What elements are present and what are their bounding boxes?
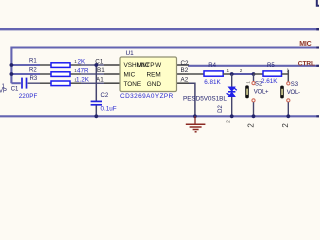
wire: vertical from R1 row to capacitor C2 and GND rail <box>95 65 97 101</box>
svg-text:2: 2 <box>281 123 290 128</box>
svg-text:2: 2 <box>246 123 255 128</box>
svg-text:R2: R2 <box>29 67 37 73</box>
svg-text:R3: R3 <box>30 76 38 82</box>
svg-text:TONE: TONE <box>124 81 142 88</box>
wire: D2 vertical to GND rail <box>231 74 233 116</box>
svg-text:1: 1 <box>227 68 230 73</box>
svg-text:0.1uF: 0.1uF <box>101 106 117 113</box>
resistor R1 pins <box>40 64 51 66</box>
wire: row to S2 junction <box>232 73 254 75</box>
svg-text:VOL+: VOL+ <box>254 90 269 96</box>
resistor R2 <box>51 72 70 77</box>
wire: S3 bottom to GND rail <box>287 102 289 116</box>
wire: GND bottom rail <box>0 115 319 117</box>
junction dot R1 row / C2 branch <box>94 63 98 67</box>
svg-text:6.81K: 6.81K <box>204 79 221 86</box>
capacitor C1 plates <box>21 78 23 89</box>
svg-text:1: 1 <box>74 68 77 73</box>
wire: A2 row corner down to GND rail <box>189 83 195 116</box>
switch S3 contact top <box>287 82 290 85</box>
TVS diode D2 (bidirectional) <box>227 87 237 97</box>
wire: top horizontal bus line <box>0 28 319 30</box>
resistor R5 right pin / corner up to CTRL <box>282 73 289 75</box>
svg-text:2: 2 <box>226 120 232 123</box>
svg-text:VP: VP <box>0 88 7 94</box>
junction dot R2 row / left vertical <box>10 72 14 76</box>
svg-text:220PF: 220PF <box>19 93 38 100</box>
wire end tips (dark) <box>316 29 319 116</box>
svg-text:MIC: MIC <box>124 71 136 78</box>
svg-text:REM: REM <box>147 71 161 78</box>
svg-text:S3: S3 <box>291 82 299 88</box>
junction dot GND rail / ground <box>193 114 197 118</box>
wire: R1 row left <box>11 64 40 66</box>
svg-text:47R: 47R <box>77 67 89 74</box>
resistor R1 <box>51 63 70 68</box>
svg-text:B1: B1 <box>97 67 105 74</box>
junction dot S3 / GND rail <box>286 114 290 118</box>
connector cut-off text at left edge <box>0 84 7 95</box>
junction dot D2 <box>230 72 234 76</box>
wire: S2 to R5 pin <box>254 73 264 75</box>
svg-text:A1: A1 <box>96 77 104 84</box>
resistor R2 pins <box>40 73 51 75</box>
wire: S3 vertical from CTRL <box>287 70 289 82</box>
svg-text:VOL-: VOL- <box>287 90 300 96</box>
resistor R5 <box>263 71 282 76</box>
wire: S2 bottom to GND rail <box>253 102 255 116</box>
wire: CTRL trunk horizontal <box>188 65 319 67</box>
svg-text:MIC: MIC <box>299 41 311 48</box>
wire: B2/REM row to R4 <box>189 73 204 75</box>
resistor R4 <box>204 71 223 76</box>
op-amp U1 body <box>120 57 177 92</box>
svg-text:2.61K: 2.61K <box>261 78 278 85</box>
ground symbol <box>186 116 206 132</box>
svg-text:GND: GND <box>147 81 162 88</box>
resistor R3 <box>51 81 70 86</box>
switch S3 button <box>280 86 284 99</box>
svg-text:MICPW: MICPW <box>137 62 162 69</box>
chip U1 pins left <box>104 65 120 83</box>
svg-text:C1: C1 <box>11 86 19 92</box>
svg-text:B2: B2 <box>181 67 189 74</box>
svg-text:D2: D2 <box>218 105 224 113</box>
junction dot C2 / GND rail <box>94 114 98 118</box>
junction dot S2 / GND rail <box>252 114 256 118</box>
resistor R4 right pin <box>223 73 232 75</box>
svg-text:PESD5V0S1BL: PESD5V0S1BL <box>183 95 227 102</box>
svg-text:R4: R4 <box>208 63 216 69</box>
svg-text:1: 1 <box>74 59 77 64</box>
switch S2 contact bottom <box>252 99 255 102</box>
wire: S2 vertical from row <box>253 74 255 81</box>
svg-text:1: 1 <box>246 81 251 84</box>
svg-text:U1: U1 <box>126 50 135 57</box>
svg-text:C2: C2 <box>101 93 109 99</box>
junction dot S2 <box>252 72 256 76</box>
svg-text:1.2K: 1.2K <box>76 76 90 83</box>
switch S3 contact bottom <box>287 99 290 102</box>
switch S2 contact top <box>252 82 255 85</box>
svg-text:2K: 2K <box>78 58 87 65</box>
sheet symbol corner (cropped) top-right <box>317 0 319 6</box>
switch S2 button <box>245 85 249 98</box>
svg-text:A2: A2 <box>181 77 189 84</box>
svg-text:CD3269A0YZPR: CD3269A0YZPR <box>120 93 174 100</box>
svg-text:R1: R1 <box>29 58 37 64</box>
svg-text:1: 1 <box>74 77 77 82</box>
capacitor C2 plates <box>91 100 102 102</box>
junction dot R1 row / left vertical <box>10 63 14 67</box>
svg-text:CTRL: CTRL <box>298 60 315 67</box>
wire: R3/C1 row left <box>11 82 20 84</box>
wire: R2 row left <box>11 73 40 75</box>
svg-text:C2: C2 <box>181 60 190 67</box>
junction dot D2 / GND rail <box>230 114 234 118</box>
chip U1 pins right <box>177 65 190 83</box>
wire: MIC net horizontal with left corner <box>11 48 319 84</box>
svg-text:R5: R5 <box>267 63 275 69</box>
svg-text:2: 2 <box>240 68 243 73</box>
resistor R3 pins <box>40 82 51 84</box>
